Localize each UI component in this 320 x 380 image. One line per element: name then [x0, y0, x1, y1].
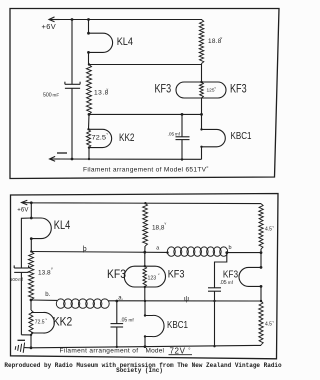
svg-text:KF3: KF3: [223, 269, 238, 281]
svg-text:KF3: KF3: [155, 84, 172, 96]
svg-text:+6V: +6V: [17, 208, 28, 214]
svg-text:4.5: 4.5: [265, 227, 272, 233]
svg-text:b: b: [229, 245, 232, 251]
svg-text:v: v: [221, 36, 223, 40]
svg-text:KBC1: KBC1: [167, 319, 188, 331]
svg-text:mf: mf: [175, 132, 181, 137]
svg-text:v: v: [165, 222, 167, 226]
svg-text:KL4: KL4: [54, 220, 71, 232]
svg-text:KF3: KF3: [107, 269, 126, 281]
svg-text:+6V: +6V: [42, 22, 57, 31]
svg-text:Filament arrangement of: Filament arrangement of: [60, 348, 139, 355]
svg-text:v: v: [51, 267, 53, 271]
svg-text:KF3: KF3: [168, 269, 185, 281]
svg-text:ψ: ψ: [184, 296, 189, 303]
svg-text:500: 500: [10, 277, 18, 282]
svg-text:KBC1: KBC1: [231, 130, 252, 142]
svg-text:72.5: 72.5: [92, 134, 107, 141]
svg-text:Model: Model: [146, 348, 165, 355]
svg-text:4.5: 4.5: [265, 322, 272, 328]
svg-text:.05: .05: [120, 318, 127, 324]
svg-text:18,8: 18,8: [152, 224, 165, 231]
svg-text:KL4: KL4: [117, 36, 133, 48]
svg-text:þ: þ: [83, 246, 87, 253]
svg-text:o: o: [189, 347, 191, 351]
svg-text:72V: 72V: [170, 346, 186, 355]
svg-text:.05: .05: [220, 280, 227, 286]
svg-text:KF3: KF3: [230, 84, 247, 96]
svg-text:72.5: 72.5: [35, 320, 45, 326]
svg-text:KK2: KK2: [119, 132, 135, 144]
svg-text:Filament arrangement of Model: Filament arrangement of Model 651TV: [83, 166, 207, 173]
svg-text:mf: mf: [228, 280, 234, 285]
svg-text:.05: .05: [168, 132, 175, 138]
svg-text:mf: mf: [129, 318, 135, 323]
svg-text:500: 500: [43, 93, 52, 99]
svg-text:13.8: 13.8: [38, 270, 51, 277]
svg-text:123: 123: [148, 276, 157, 282]
svg-text:KK2: KK2: [53, 315, 73, 329]
svg-text:mF: mF: [53, 93, 60, 98]
svg-text:o: o: [207, 165, 209, 169]
svg-text:b.: b.: [45, 292, 50, 298]
svg-text:v: v: [107, 88, 109, 92]
